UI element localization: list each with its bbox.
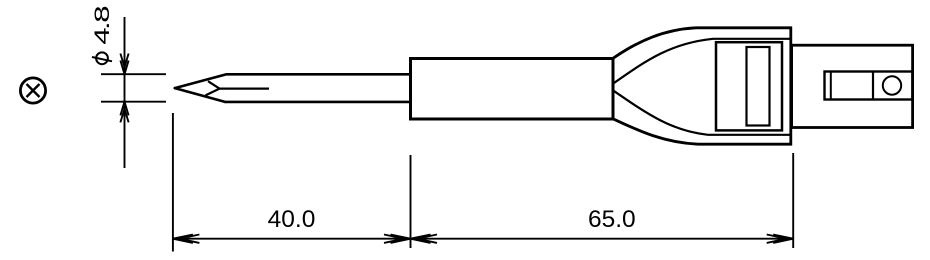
svg-text:4.8: 4.8	[90, 6, 114, 45]
svg-text:65.0: 65.0	[588, 206, 636, 233]
svg-text:40.0: 40.0	[268, 206, 316, 233]
